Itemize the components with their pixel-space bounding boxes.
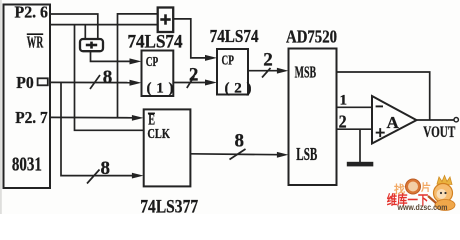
- svg-text:1: 1: [340, 93, 348, 109]
- svg-text:2: 2: [339, 112, 347, 132]
- svg-text:(1): (1): [147, 81, 174, 97]
- svg-text:74LS74: 74LS74: [128, 32, 183, 53]
- svg-text:LSB: LSB: [296, 144, 317, 164]
- svg-text:VOUT: VOUT: [423, 124, 455, 141]
- svg-text:74LS377: 74LS377: [140, 197, 198, 214]
- svg-text:(2): (2): [225, 81, 252, 97]
- svg-text:CP: CP: [222, 53, 235, 68]
- svg-text:74LS74: 74LS74: [210, 26, 259, 46]
- svg-text:P2. 6: P2. 6: [15, 3, 49, 22]
- svg-text:AD7520: AD7520: [286, 27, 337, 47]
- svg-text:2: 2: [189, 64, 199, 85]
- svg-text:8: 8: [103, 67, 113, 88]
- svg-text:2: 2: [263, 50, 273, 71]
- svg-text:8: 8: [235, 131, 245, 152]
- svg-text:8: 8: [101, 158, 111, 179]
- svg-text:P2. 7: P2. 7: [15, 108, 48, 127]
- svg-text:8031: 8031: [12, 153, 42, 175]
- svg-text:CP: CP: [146, 55, 159, 70]
- svg-text:www.dzsc.com: www.dzsc.com: [397, 203, 448, 212]
- svg-text:E: E: [148, 111, 155, 128]
- svg-text:A: A: [387, 113, 400, 132]
- svg-text:CLK: CLK: [147, 127, 170, 142]
- svg-text:MSB: MSB: [295, 63, 317, 82]
- svg-text:WR: WR: [27, 33, 44, 52]
- svg-text:P0: P0: [16, 73, 34, 92]
